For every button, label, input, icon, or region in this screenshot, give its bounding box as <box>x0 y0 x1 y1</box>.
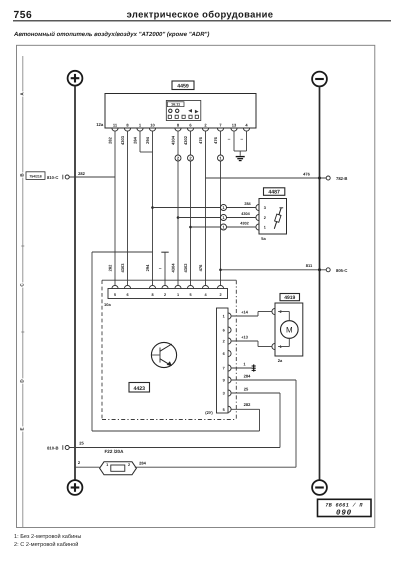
wire 4302 vertical <box>190 131 192 285</box>
minus bus wire <box>319 87 321 480</box>
ruler tick <box>21 245 24 247</box>
svg-text:294: 294 <box>145 264 150 271</box>
wire 476 pin2 vertical <box>205 131 207 285</box>
pin 5 of 4423 top <box>112 285 118 288</box>
svg-text:282: 282 <box>78 171 85 176</box>
wire 25 from pin3 <box>231 392 280 394</box>
svg-text:1: 1 <box>106 463 108 467</box>
junction 476/782-B at bus <box>318 177 321 180</box>
pin 7 of 4423 right <box>228 365 231 371</box>
minus bus top terminal <box>312 72 327 87</box>
minus bus bottom terminal <box>312 480 327 495</box>
svg-text:7: 7 <box>219 123 222 128</box>
motor M symbol <box>281 321 299 339</box>
ruler mark B <box>20 172 25 177</box>
label 4487 <box>264 188 285 196</box>
control unit U4459 box <box>105 94 256 129</box>
ruler mark A <box>20 91 25 96</box>
label 4459 <box>172 81 194 90</box>
wire +14 <box>231 315 258 317</box>
pin 1 of 4487 <box>256 224 259 230</box>
wire 282 to 810-C <box>69 176 115 178</box>
svg-text:754/218: 754/218 <box>29 175 41 179</box>
connector pin square 2 <box>175 115 178 118</box>
svg-text:810-B: 810-B <box>47 445 58 450</box>
pin 2 of 4487 <box>256 214 259 220</box>
svg-text:7: 7 <box>223 367 225 371</box>
svg-text:11: 11 <box>113 123 118 128</box>
svg-text:4: 4 <box>245 123 248 128</box>
wire ground drop <box>239 151 241 156</box>
wire pin7 terminal <box>231 367 252 369</box>
wire minus stub bar <box>161 251 168 253</box>
svg-text:5a: 5a <box>261 236 266 241</box>
svg-text:9: 9 <box>223 379 225 383</box>
svg-text:2: 2 <box>164 293 166 297</box>
connector pin square 5 <box>195 115 198 118</box>
svg-text:1: 1 <box>223 315 225 319</box>
pin 11 of 4459 <box>112 128 118 131</box>
label 4919 <box>280 294 300 301</box>
wire 284 to 4487 pin3 <box>153 207 256 209</box>
svg-text:4304: 4304 <box>171 263 176 273</box>
wire 4304 vertical <box>177 131 179 285</box>
pin 1 of 4919 <box>272 343 275 349</box>
svg-text:3: 3 <box>264 206 266 210</box>
page ref box 754-218 <box>26 172 45 180</box>
svg-text:10a: 10a <box>104 302 111 307</box>
svg-text:13: 13 <box>232 123 237 128</box>
connector circle 782-B <box>326 176 330 180</box>
svg-text:1: 1 <box>264 226 266 230</box>
svg-text:090: 090 <box>336 509 352 518</box>
svg-text:4302: 4302 <box>183 263 188 273</box>
svg-text:4919: 4919 <box>284 295 295 301</box>
svg-text:2: 2 <box>264 216 266 220</box>
svg-text:5: 5 <box>223 408 225 412</box>
svg-text:+14: +14 <box>241 309 249 314</box>
connector circle on 4302 <box>221 224 227 230</box>
svg-text:284: 284 <box>244 373 251 378</box>
svg-text:6: 6 <box>223 329 225 333</box>
pin 9 of 4423 right <box>228 377 231 383</box>
connector tick 810-C <box>62 175 64 180</box>
svg-text:782-B: 782-B <box>336 176 347 181</box>
wire 4303 vertical <box>127 131 129 285</box>
footnote circle 2 on 4302 <box>188 155 194 161</box>
wire +13 <box>231 340 258 342</box>
svg-text:7В 6661 / П: 7В 6661 / П <box>325 502 363 508</box>
junction 4304 <box>177 216 180 219</box>
pin 2 of 4459 <box>202 128 208 131</box>
svg-text:811: 811 <box>306 263 313 268</box>
wire 4304 to 4487 pin2 <box>178 217 256 219</box>
connector circle on 284 <box>221 205 227 211</box>
svg-text:F22 /20A: F22 /20A <box>105 449 125 454</box>
svg-text:476: 476 <box>198 264 203 271</box>
left ruler line <box>22 56 24 527</box>
label 16:11 <box>167 102 184 107</box>
pin 13 of 4459 <box>231 128 237 131</box>
svg-text:+13: +13 <box>241 334 249 339</box>
junction 811 at bus <box>318 268 321 271</box>
pin 3 of 4423 right <box>228 390 231 396</box>
pin 2 of 4423 right <box>228 338 231 344</box>
wire 4303 lower part crossing <box>177 217 179 220</box>
svg-text:электрическое оборудование: электрическое оборудование <box>127 8 274 19</box>
junction 294/284 <box>151 206 154 209</box>
svg-text:294: 294 <box>145 136 150 143</box>
heater 4423 outline top <box>102 279 236 281</box>
connector circle 810-B <box>65 446 69 450</box>
svg-text:282: 282 <box>108 264 113 271</box>
motor lead upper <box>278 311 289 313</box>
pin 8 of 4459 <box>175 128 181 131</box>
pin 5 of 4423 top <box>187 285 193 288</box>
svg-text:3: 3 <box>223 392 225 396</box>
transistor symbol <box>151 342 176 367</box>
pin 8 of 4459 <box>124 128 130 131</box>
wire pin4 stub <box>246 131 248 151</box>
pin 6 of 4423 top <box>124 285 130 288</box>
motor lead lower <box>278 346 289 348</box>
ruler tick <box>21 331 24 333</box>
svg-text:282: 282 <box>108 136 113 143</box>
wire minus stub <box>164 252 166 285</box>
heater 4423 outline bottom <box>102 419 236 421</box>
pin 3 of 4487 <box>256 204 259 210</box>
svg-text:2: С 2-метровой кабиной: 2: С 2-метровой кабиной <box>14 541 78 548</box>
wire 476 pin7 vertical <box>220 131 222 285</box>
wire 282 loop bottom segment <box>92 430 260 432</box>
pin 6 of 4423 right <box>228 350 231 356</box>
svg-text:–: – <box>159 266 162 272</box>
svg-text:2: 2 <box>204 123 207 128</box>
svg-text:1: 1 <box>139 123 142 128</box>
wire 282 loop down segment <box>91 252 93 431</box>
svg-text:12a: 12a <box>96 122 104 127</box>
svg-text:2: 2 <box>128 463 130 467</box>
wire ground join <box>234 150 247 152</box>
heater 4423 outline right <box>235 280 237 419</box>
junction 4302 <box>189 226 192 229</box>
connector circle on 4304 <box>221 215 227 221</box>
svg-text:10: 10 <box>150 123 155 128</box>
svg-text:4423: 4423 <box>133 386 145 392</box>
footnote circle 1 on 476 <box>218 155 224 161</box>
wire 284 from pin 1 <box>139 131 141 152</box>
plus bus wire <box>74 86 76 480</box>
heater 4423 outline left <box>101 280 103 419</box>
pin 7 of 4459 <box>217 128 223 131</box>
connector tick 810-B <box>62 445 64 450</box>
connector 16:11 box <box>166 101 201 121</box>
heater 4423 top pin strip <box>108 289 228 299</box>
label 4423 <box>129 383 150 393</box>
connector socket A <box>169 109 172 112</box>
diagram frame <box>17 45 375 527</box>
svg-text:2: 2 <box>219 293 221 297</box>
drawing number box <box>318 499 372 517</box>
connector circle 805-C <box>326 268 330 272</box>
connector pin square 1 <box>168 115 171 118</box>
wire 294 vertical <box>152 131 154 285</box>
svg-text:25: 25 <box>79 440 84 445</box>
svg-text:4: 4 <box>204 293 207 297</box>
thermal switch symbol <box>274 208 283 229</box>
svg-text:476: 476 <box>198 136 203 143</box>
ruler mark D <box>20 378 25 383</box>
svg-text:5: 5 <box>189 293 191 297</box>
wire pin13 stub <box>233 131 235 151</box>
svg-text:756: 756 <box>14 10 33 21</box>
svg-text:1: 1 <box>177 293 179 297</box>
svg-text:4304: 4304 <box>241 212 250 216</box>
svg-text:4302: 4302 <box>183 135 188 145</box>
wire 282 loop left segment <box>92 251 153 253</box>
svg-text:16:11: 16:11 <box>171 103 180 107</box>
svg-text:2: 2 <box>78 460 81 465</box>
connector pin square 3 <box>182 115 185 118</box>
wire plus bus to fuse <box>75 466 100 468</box>
svg-text:4487: 4487 <box>268 190 280 196</box>
switch 4487 box <box>259 199 287 235</box>
connector arrow left <box>188 109 192 113</box>
wire 476 to 782-B <box>206 177 327 179</box>
pin 4 of 4423 top <box>202 285 208 288</box>
svg-text:4303: 4303 <box>120 135 125 145</box>
wire 282 loop into pin 5 <box>231 408 259 410</box>
svg-text:8: 8 <box>151 293 153 297</box>
pin 8 of 4423 top <box>149 285 155 288</box>
svg-text:2: 2 <box>223 340 225 344</box>
pin 6 of 4459 <box>187 128 193 131</box>
svg-text:284: 284 <box>133 136 138 143</box>
svg-text:2: 2 <box>280 310 282 314</box>
svg-text:8: 8 <box>177 123 180 128</box>
svg-text:1: 1 <box>280 345 282 349</box>
svg-text:5: 5 <box>114 293 116 297</box>
fuse F22 body <box>100 462 137 475</box>
connector circle 810-C <box>65 175 69 179</box>
connector arrow right <box>195 110 199 114</box>
pin 10 of 4459 <box>149 128 155 131</box>
plus bus bottom terminal <box>68 480 83 495</box>
header rule <box>13 20 391 22</box>
wire 284 from pin9 <box>231 379 296 381</box>
wire 811 to 805-C <box>221 269 327 271</box>
svg-text:4304: 4304 <box>171 135 176 145</box>
svg-text:2a: 2a <box>278 358 283 363</box>
ruler mark C <box>20 282 25 287</box>
svg-text:1: Без 2-метровой кабины: 1: Без 2-метровой кабины <box>14 533 81 540</box>
pin 1 of 4459 <box>137 128 143 131</box>
svg-text:805-C: 805-C <box>336 268 347 273</box>
svg-text:1: 1 <box>243 361 246 366</box>
svg-text:6: 6 <box>126 293 128 297</box>
svg-text:Автономный отопитель воздух/во: Автономный отопитель воздух/воздух "AT20… <box>13 31 209 38</box>
svg-text:4302: 4302 <box>240 222 248 226</box>
svg-text:25: 25 <box>244 386 249 391</box>
pin 6 of 4423 right <box>228 327 231 333</box>
pin 4 of 4459 <box>243 128 249 131</box>
ground symbol <box>236 157 245 161</box>
svg-text:8: 8 <box>126 123 129 128</box>
ruler mark E <box>20 426 25 431</box>
svg-text:–: – <box>240 137 243 143</box>
connector pin square 4 <box>189 115 192 118</box>
svg-text:M: M <box>286 326 293 335</box>
plus bus top terminal <box>68 71 83 86</box>
svg-text:–: – <box>228 137 231 143</box>
svg-text:6: 6 <box>223 352 225 356</box>
svg-text:810-C: 810-C <box>47 175 58 180</box>
heater 4423 right pin strip <box>217 308 229 413</box>
svg-text:6: 6 <box>189 123 192 128</box>
pin 1 of 4423 top <box>175 285 181 288</box>
wire 282 loop up segment <box>259 409 261 431</box>
junction 811 <box>219 269 222 272</box>
pin 5 of 4423 right <box>228 406 231 412</box>
svg-text:4459: 4459 <box>177 84 189 90</box>
svg-text:E: E <box>20 427 25 430</box>
svg-text:284: 284 <box>244 202 251 206</box>
connector socket B <box>176 109 179 112</box>
wire 282 vertical <box>114 131 116 285</box>
pin 2 of 4423 top <box>217 285 223 288</box>
footnote circle 2 on 4304 <box>175 155 181 161</box>
svg-text:476: 476 <box>303 171 310 176</box>
svg-text:4303: 4303 <box>120 263 125 273</box>
svg-text:(2У): (2У) <box>205 410 213 415</box>
motor 4919 box <box>275 303 303 356</box>
pin 2 of 4423 top <box>162 285 168 288</box>
pin 1 of 4423 right <box>228 313 231 319</box>
svg-text:476: 476 <box>213 136 218 143</box>
svg-text:282: 282 <box>244 402 251 407</box>
pin 2 of 4919 <box>272 308 275 314</box>
svg-text:284: 284 <box>139 461 146 466</box>
terminal symbol pin7 <box>252 364 256 371</box>
wire 4302 to 4487 pin1 <box>191 226 256 228</box>
